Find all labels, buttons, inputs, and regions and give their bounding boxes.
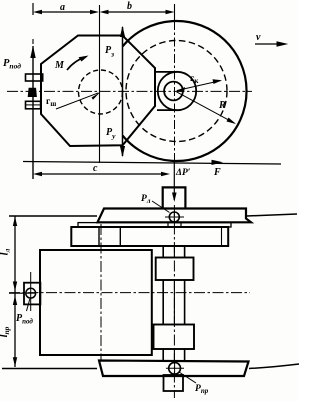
- svg-text:ΔP′: ΔP′: [175, 168, 191, 178]
- svg-text:b: b: [127, 1, 132, 12]
- svg-text:R: R: [218, 100, 226, 111]
- svg-text:lпр: lпр: [0, 326, 11, 337]
- svg-text:Pл: Pл: [141, 194, 151, 205]
- svg-text:Pпод: Pпод: [16, 313, 33, 326]
- svg-text:Pу: Pу: [106, 127, 116, 141]
- svg-text:a: a: [60, 2, 65, 13]
- svg-text:Pпр: Pпр: [195, 384, 209, 395]
- svg-text:Pпод: Pпод: [3, 58, 21, 71]
- svg-text:Pз: Pз: [105, 45, 114, 59]
- svg-text:v: v: [256, 32, 261, 43]
- svg-text:гк: гк: [190, 74, 199, 85]
- svg-text:F: F: [213, 167, 221, 178]
- svg-text:lл: lл: [0, 248, 12, 255]
- svg-text:гш: гш: [46, 97, 56, 108]
- svg-text:c: c: [93, 163, 98, 174]
- svg-text:M: M: [54, 60, 65, 71]
